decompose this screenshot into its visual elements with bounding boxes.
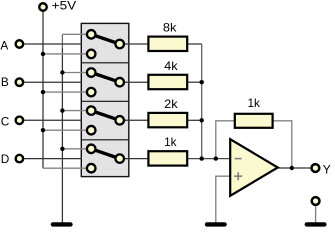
switch SA top throw contact bbox=[87, 30, 96, 39]
switch box divider 3 bbox=[81, 139, 129, 141]
wire resistor 1k to op-amp inverting input bbox=[188, 158, 231, 160]
op-amp U1 bbox=[230, 139, 278, 196]
junction ground to D top throw bbox=[60, 147, 64, 151]
svg-text:Y: Y bbox=[323, 163, 331, 177]
svg-text:1k: 1k bbox=[247, 96, 260, 110]
wire summing vertical line bbox=[201, 44, 203, 159]
switch SB lever bbox=[91, 73, 120, 83]
wire resistor 2k to summing line bbox=[188, 119, 202, 121]
svg-text:D: D bbox=[1, 152, 10, 166]
junction output node bbox=[290, 166, 294, 170]
wire feedback left bbox=[216, 121, 235, 159]
switch SB top throw contact bbox=[87, 68, 96, 77]
wire input D bbox=[19, 158, 82, 160]
op-amp plus symbol bbox=[234, 172, 242, 180]
terminal C bbox=[16, 117, 24, 125]
wire stub ground to switch B top throw bbox=[62, 72, 88, 74]
svg-text:8k: 8k bbox=[163, 21, 177, 35]
wire input C bbox=[19, 119, 82, 121]
junction summing node at inverting input bbox=[200, 156, 204, 160]
svg-text:B: B bbox=[1, 75, 9, 89]
wire ground rail bbox=[61, 48, 63, 222]
junction feedback at inverting input bbox=[214, 156, 218, 160]
wire stub ground to switch C top throw bbox=[62, 110, 88, 112]
wire stub +5V to switch A bottom throw bbox=[43, 53, 88, 55]
wire input B bbox=[19, 81, 82, 83]
wire stub ground to switch D top throw bbox=[62, 148, 88, 150]
switch SC top throw contact bbox=[87, 106, 96, 115]
resistor 2k bbox=[148, 113, 187, 127]
terminal D bbox=[16, 155, 24, 163]
wire resistor 8k to summing line bbox=[188, 43, 202, 45]
wire +5V rail bbox=[42, 11, 44, 168]
wire switch A common to resistor 8k bbox=[120, 43, 149, 45]
wire op-amp non-inverting input to ground bbox=[216, 176, 230, 222]
junction ground to C top throw bbox=[60, 108, 64, 112]
wire op-amp output to Y bbox=[278, 167, 312, 169]
switch box divider 1 bbox=[81, 62, 129, 64]
junction +5V to C bottom throw bbox=[41, 128, 45, 132]
switch SD lever bbox=[91, 149, 120, 159]
switch SA common contact bbox=[115, 40, 124, 49]
wire switch C common to resistor 2k bbox=[120, 119, 149, 121]
terminal Y bbox=[312, 164, 320, 172]
resistor 1k feedback bbox=[235, 114, 273, 128]
switch SD common contact bbox=[115, 154, 124, 163]
svg-text:C: C bbox=[1, 114, 10, 128]
junction summing node 4k bbox=[200, 80, 204, 84]
svg-text:1k: 1k bbox=[164, 135, 177, 149]
switch SA bottom throw contact bbox=[87, 50, 96, 59]
switch box divider 2 bbox=[81, 100, 129, 102]
wire stub ground to switch A top throw bbox=[62, 33, 88, 35]
terminal output ground bbox=[312, 197, 320, 205]
svg-text:2k: 2k bbox=[164, 97, 178, 111]
wire resistor 4k to summing line bbox=[188, 81, 202, 83]
switch SB bottom throw contact bbox=[87, 88, 96, 97]
terminal A bbox=[16, 40, 24, 48]
svg-text:A: A bbox=[0, 38, 8, 52]
wire output ground terminal stem bbox=[315, 203, 317, 222]
wire stub +5V to switch D bottom throw bbox=[43, 167, 88, 169]
wire stub +5V to switch B bottom throw bbox=[43, 91, 88, 93]
switch SC bottom throw contact bbox=[87, 126, 96, 135]
switch SA lever bbox=[91, 34, 120, 44]
op-amp minus symbol bbox=[235, 158, 242, 160]
junction summing node 2k bbox=[200, 118, 204, 122]
switch SC common contact bbox=[115, 116, 124, 125]
svg-text:+5V: +5V bbox=[52, 0, 77, 12]
wire stub +5V to switch C bottom throw bbox=[43, 129, 88, 131]
switch SB common contact bbox=[115, 78, 124, 87]
terminal B bbox=[16, 78, 24, 86]
junction +5V to A bottom throw bbox=[41, 52, 45, 56]
svg-text:4k: 4k bbox=[164, 59, 178, 73]
wire input A bbox=[19, 43, 82, 45]
wire feedback right bbox=[273, 121, 292, 168]
junction +5V to B bottom throw bbox=[41, 90, 45, 94]
ground left bbox=[53, 222, 71, 226]
ground op-amp bbox=[207, 222, 225, 226]
wire ground rail top corner bbox=[61, 34, 63, 48]
resistor 4k bbox=[148, 75, 187, 89]
resistor 1k input bbox=[148, 151, 187, 165]
switch SC lever bbox=[91, 111, 120, 121]
junction ground to B top throw bbox=[60, 70, 64, 74]
ground output bbox=[307, 222, 325, 226]
wire switch D common to resistor 1k bbox=[120, 158, 149, 160]
resistor 8k bbox=[148, 37, 187, 51]
terminal +5V bbox=[39, 3, 47, 11]
wire switch B common to resistor 4k bbox=[120, 81, 149, 83]
switch SD top throw contact bbox=[87, 145, 96, 154]
switch box bbox=[81, 23, 129, 176]
switch SD bottom throw contact bbox=[87, 164, 96, 173]
